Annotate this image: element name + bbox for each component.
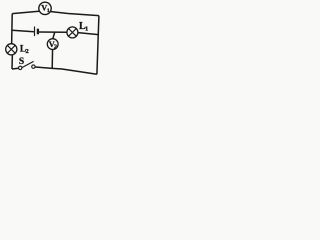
wire right vertical (97, 16, 99, 75)
voltmeter V1 (39, 2, 51, 14)
wire switch stub to left corner (12, 67, 18, 70)
wire middle rail center (39, 31, 67, 33)
wire V2 branch upper (53, 32, 55, 38)
lamp L1 (67, 21, 88, 38)
wire V2 branch lower (51, 49, 53, 68)
wire left lower vertical (11, 55, 13, 69)
wire left vertical (11, 14, 14, 44)
svg-text:1: 1 (47, 8, 50, 14)
svg-text:2: 2 (26, 48, 29, 55)
svg-text:2: 2 (54, 44, 57, 51)
wire bottom rail (35, 67, 97, 74)
wire top rail right (50, 12, 99, 16)
lamp L2 (6, 44, 29, 55)
svg-text:1: 1 (85, 25, 88, 32)
switch S (19, 57, 36, 70)
wire top rail left (12, 11, 40, 14)
voltmeter V2 (47, 39, 58, 51)
wire middle rail right (78, 33, 98, 35)
battery B1 (35, 27, 38, 37)
wire middle rail left (12, 30, 34, 32)
svg-text:S: S (19, 57, 24, 67)
